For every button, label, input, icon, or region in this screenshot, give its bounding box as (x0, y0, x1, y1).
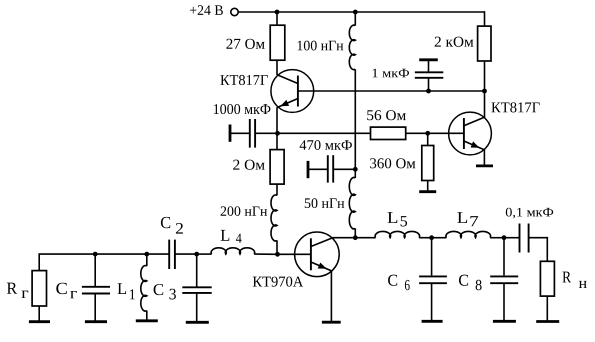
wire: L7/C8 junction down to C8 (503, 238, 505, 276)
wire: 56 Ohm to Q2 base (406, 132, 464, 134)
junction: L5 / C6 / L7 (429, 235, 434, 240)
junction: bus / L1 (144, 252, 149, 257)
Q2 emitter lead (diagonal) (464, 141, 485, 150)
transistor Q2 КТ817Г body (449, 112, 492, 155)
ground (C3) (186, 321, 209, 324)
resistor R н body (540, 261, 554, 296)
Q3 emitter lead (diagonal) (311, 262, 332, 271)
wire: rail to R1 top (276, 11, 278, 25)
capacitor 1000 мкФ plates (250, 119, 255, 148)
label 2 Ом (233, 160, 265, 170)
label 2 кОм (435, 37, 474, 47)
Q1 collector lead (diagonal) (277, 75, 298, 84)
transistor Q1 КТ817Г body (271, 70, 314, 113)
capacitor C3 plates (182, 287, 211, 293)
wire: Rg to ground (38, 306, 40, 321)
wire: L7 to C8 junction (490, 237, 504, 239)
Q3 base bar (310, 238, 312, 270)
label С г (56, 283, 77, 299)
resistor R г body (32, 271, 46, 306)
ground (C8) (493, 320, 516, 323)
capacitor С г plates (82, 287, 110, 294)
wire: corner down to R load (546, 237, 548, 261)
capacitor 1000 мкФ input T-bar (229, 125, 232, 142)
wire: L 100 nH down to 470uF junction (354, 69, 356, 169)
wire: C 0.1uF to Rn corner (529, 237, 548, 239)
label L 7 (457, 212, 478, 226)
junction: 56 Ohm / 360 Ohm / Q2 base (425, 131, 430, 136)
wire: L 200 nH to node B (276, 240, 278, 254)
wire: Rg corner down (38, 253, 40, 270)
wire: R load to ground (546, 296, 548, 321)
label С 3 (154, 284, 176, 299)
junction: C2 / C3 / L4 (194, 252, 199, 257)
junction: base net / R 2kOhm / Q2 collector (482, 89, 487, 94)
wire: node B to Q3 base (278, 253, 311, 255)
capacitor 1 мкФ lead from bar (428, 61, 430, 73)
label L 1 (118, 283, 135, 299)
wire: Q1 emitter down to node A (276, 107, 278, 133)
Q2 emitter arrow (471, 141, 480, 147)
resistor R 2 кОм (478, 26, 491, 61)
capacitor 1000 мкФ lead (231, 132, 250, 134)
wire: mid bus to L5 (355, 237, 375, 239)
wire: junction to L7 (432, 237, 447, 239)
ground (R load) (536, 320, 559, 323)
wire: L5/L7 junction down to C6 (431, 238, 433, 276)
wire: junction down to Q2 collector (484, 91, 486, 118)
wire: R 360 bottom to ground (427, 181, 429, 192)
wire: C source lead (94, 254, 96, 287)
junction: bus / C source (93, 252, 98, 257)
junction: node B (L4 / L200nH / Q3 base) (275, 252, 280, 257)
capacitor C2 plates (169, 240, 175, 269)
junction: base net / C 1uF (426, 89, 431, 94)
inductor 100 нГн (349, 25, 355, 69)
label L 4 (221, 230, 242, 243)
junction: rail / L 100 nH (353, 10, 358, 15)
resistor R 360 Ом (422, 146, 434, 181)
ground (C6) (422, 320, 443, 323)
junction: node A (Q1 emitter / C / R 2 Ohm) (275, 131, 280, 136)
Q2 collector lead (diagonal) (464, 117, 485, 126)
ground (Rg) (29, 320, 50, 323)
wire: R 2 Ohm to L 200 nH (276, 184, 278, 195)
label 1000 мкФ (214, 104, 271, 114)
wire: L1 to ground (146, 311, 148, 321)
label +24 В (190, 5, 223, 15)
capacitor 1 мкФ lead to base net (428, 78, 430, 91)
wire: L1 lead (146, 254, 148, 266)
wire: L4 to node B (254, 253, 277, 255)
wire: Q3 collector to mid bus (333, 237, 356, 239)
Q1 base bar (297, 76, 299, 107)
ground (C source) (85, 320, 107, 323)
label 360 Ом (370, 158, 415, 168)
wire: Q3 emitter to ground (330, 271, 332, 322)
inductor L1 (141, 266, 147, 311)
wire: junction to L 50 nH (354, 169, 356, 178)
resistor R 27 Ом (270, 25, 285, 60)
wire: R1 bottom to Q1 collector (276, 60, 278, 75)
label КТ817Г (Q1) (220, 75, 267, 85)
wire: +24V rail (terminal to 2 kOhm branch) (238, 11, 484, 13)
ground (L1) (136, 319, 158, 322)
label 470 мкФ (300, 140, 352, 150)
Q1 emitter arrow (280, 100, 289, 106)
label C 8 (459, 275, 482, 291)
inductor L5 (375, 231, 419, 237)
capacitor 470 мкФ lead (309, 168, 328, 170)
wire: C3 lead (196, 254, 198, 287)
capacitor 470 мкФ input T-bar (307, 161, 310, 178)
wire: node A to 56 Ohm resistor (278, 132, 371, 134)
label R н (563, 272, 587, 288)
label C 2 (161, 217, 183, 234)
label 200 нГн (221, 206, 268, 215)
transistor Q3 КТ970А body (295, 232, 340, 277)
wire: junction to C 0.1uF (504, 237, 520, 239)
label 56 Ом (367, 110, 406, 120)
wire: C3 to ground (196, 293, 198, 322)
inductor 200 нГн (271, 195, 277, 241)
capacitor C6 plates (419, 276, 447, 283)
wire: rail to L 100 nH (354, 12, 356, 26)
label 27 Ом (226, 39, 264, 49)
wire: junction to L4 (197, 253, 212, 255)
label 100 нГн (298, 41, 344, 51)
Q3 collector lead (diagonal) (311, 238, 333, 247)
resistor R 2 Ом (270, 150, 284, 185)
capacitor 0,1 мкФ plates (520, 224, 529, 253)
wire: C2 to C3 junction (175, 253, 197, 255)
inductor L4 (211, 248, 254, 254)
capacitor 1000 мкФ lead to node A (255, 132, 277, 134)
wire: Q1 base to 2 kOhm node (298, 90, 485, 92)
label КТ970А (253, 277, 303, 287)
capacitor 470 мкФ plates (328, 155, 333, 182)
ground (R 360) (419, 190, 436, 193)
junction: mid bus / L50 / Q3 collector (353, 235, 358, 240)
wire: Q2 emitter to ground (483, 150, 485, 166)
wire: L5 to C6 junction (419, 237, 432, 239)
wire: C source to ground (94, 294, 96, 322)
inductor L7 (446, 231, 491, 237)
label R г (7, 283, 28, 298)
ground (Q2 emitter) (476, 164, 493, 167)
wire: L 50 nH to mid bus (354, 228, 356, 237)
label 1 мкФ (373, 69, 409, 78)
capacitor 470 мкФ lead to junction (333, 168, 355, 170)
junction: L7 / C8 / C out (502, 235, 507, 240)
wire: R 2kOhm bottom to junction (484, 61, 486, 91)
wire: C6 to ground (431, 283, 433, 321)
label L 5 (388, 212, 408, 226)
resistor R 56 Ом (371, 127, 406, 139)
label КТ817Г (Q2) (491, 102, 539, 112)
Q2 base bar (463, 118, 465, 149)
wire: input bus (Rg corner to C2) (39, 253, 169, 255)
ground (Q3 emitter) (322, 321, 341, 324)
wire: rail corner down to R 2kOhm (484, 11, 486, 26)
capacitor 1 мкФ plates (415, 72, 444, 78)
capacitor C8 plates (490, 276, 518, 283)
Q1 emitter lead (diagonal) (277, 99, 298, 108)
Q3 emitter arrow (318, 263, 327, 269)
power terminal +24V (231, 8, 238, 15)
inductor 50 нГн (349, 177, 355, 228)
wire: C8 to ground (503, 283, 505, 321)
label 50 нГн (305, 198, 345, 208)
label 0,1 мкФ (506, 208, 553, 219)
label C 6 (388, 275, 410, 291)
wire: junction to R 360 Ohm (427, 133, 429, 145)
junction: C470 / inductors node (353, 167, 358, 172)
capacitor 1 мкФ top T-bar (419, 58, 438, 61)
junction: rail / R 27 Ohm (275, 10, 280, 15)
wire: node A to R 2 Ohm (276, 133, 278, 149)
